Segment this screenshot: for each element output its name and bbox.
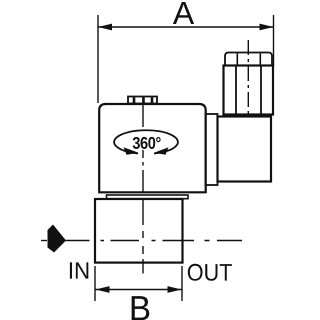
coil center line (dash-dot) (142, 96, 144, 274)
label OUT (188, 264, 232, 281)
flow direction arrow (48, 225, 67, 253)
rotation ellipse 360 (114, 130, 178, 153)
center line tail left of arrow (41, 240, 47, 242)
connector center line (247, 40, 249, 114)
cap on gland (225, 53, 272, 66)
gland ridged body (224, 66, 274, 115)
valve body (95, 199, 183, 263)
dimension B extension line left (94, 266, 96, 301)
dimension B line (95, 289, 182, 291)
dimension B arrow left (96, 286, 110, 293)
gland ridge line 1 (235, 66, 237, 114)
cap divider 1 (236, 54, 238, 66)
label A (173, 2, 194, 24)
horizontal center line (flow axis) (65, 240, 242, 242)
cap divider 2 (259, 54, 261, 66)
terminal tab ticks (133, 98, 136, 104)
dimension A arrow left (98, 24, 112, 31)
connector lower body (218, 117, 272, 182)
coil body (99, 104, 206, 192)
dimension B arrow right (168, 286, 182, 293)
flange between coil and connector (206, 114, 218, 185)
terminal tab on coil top (128, 97, 157, 104)
dimension A arrow right (260, 24, 274, 31)
gland ridge line 2 (260, 66, 262, 114)
dimension A line (98, 26, 274, 28)
dimension A extension line right (273, 15, 275, 66)
dimension B extension line right (181, 266, 183, 301)
rotation arrowhead right (154, 147, 169, 155)
rotation arrowhead left (124, 147, 139, 155)
label B (132, 296, 150, 320)
dimension A extension line left (97, 15, 99, 103)
label IN (70, 262, 88, 278)
label 360deg (133, 137, 161, 149)
mounting plate between coil and valve (107, 195, 189, 199)
